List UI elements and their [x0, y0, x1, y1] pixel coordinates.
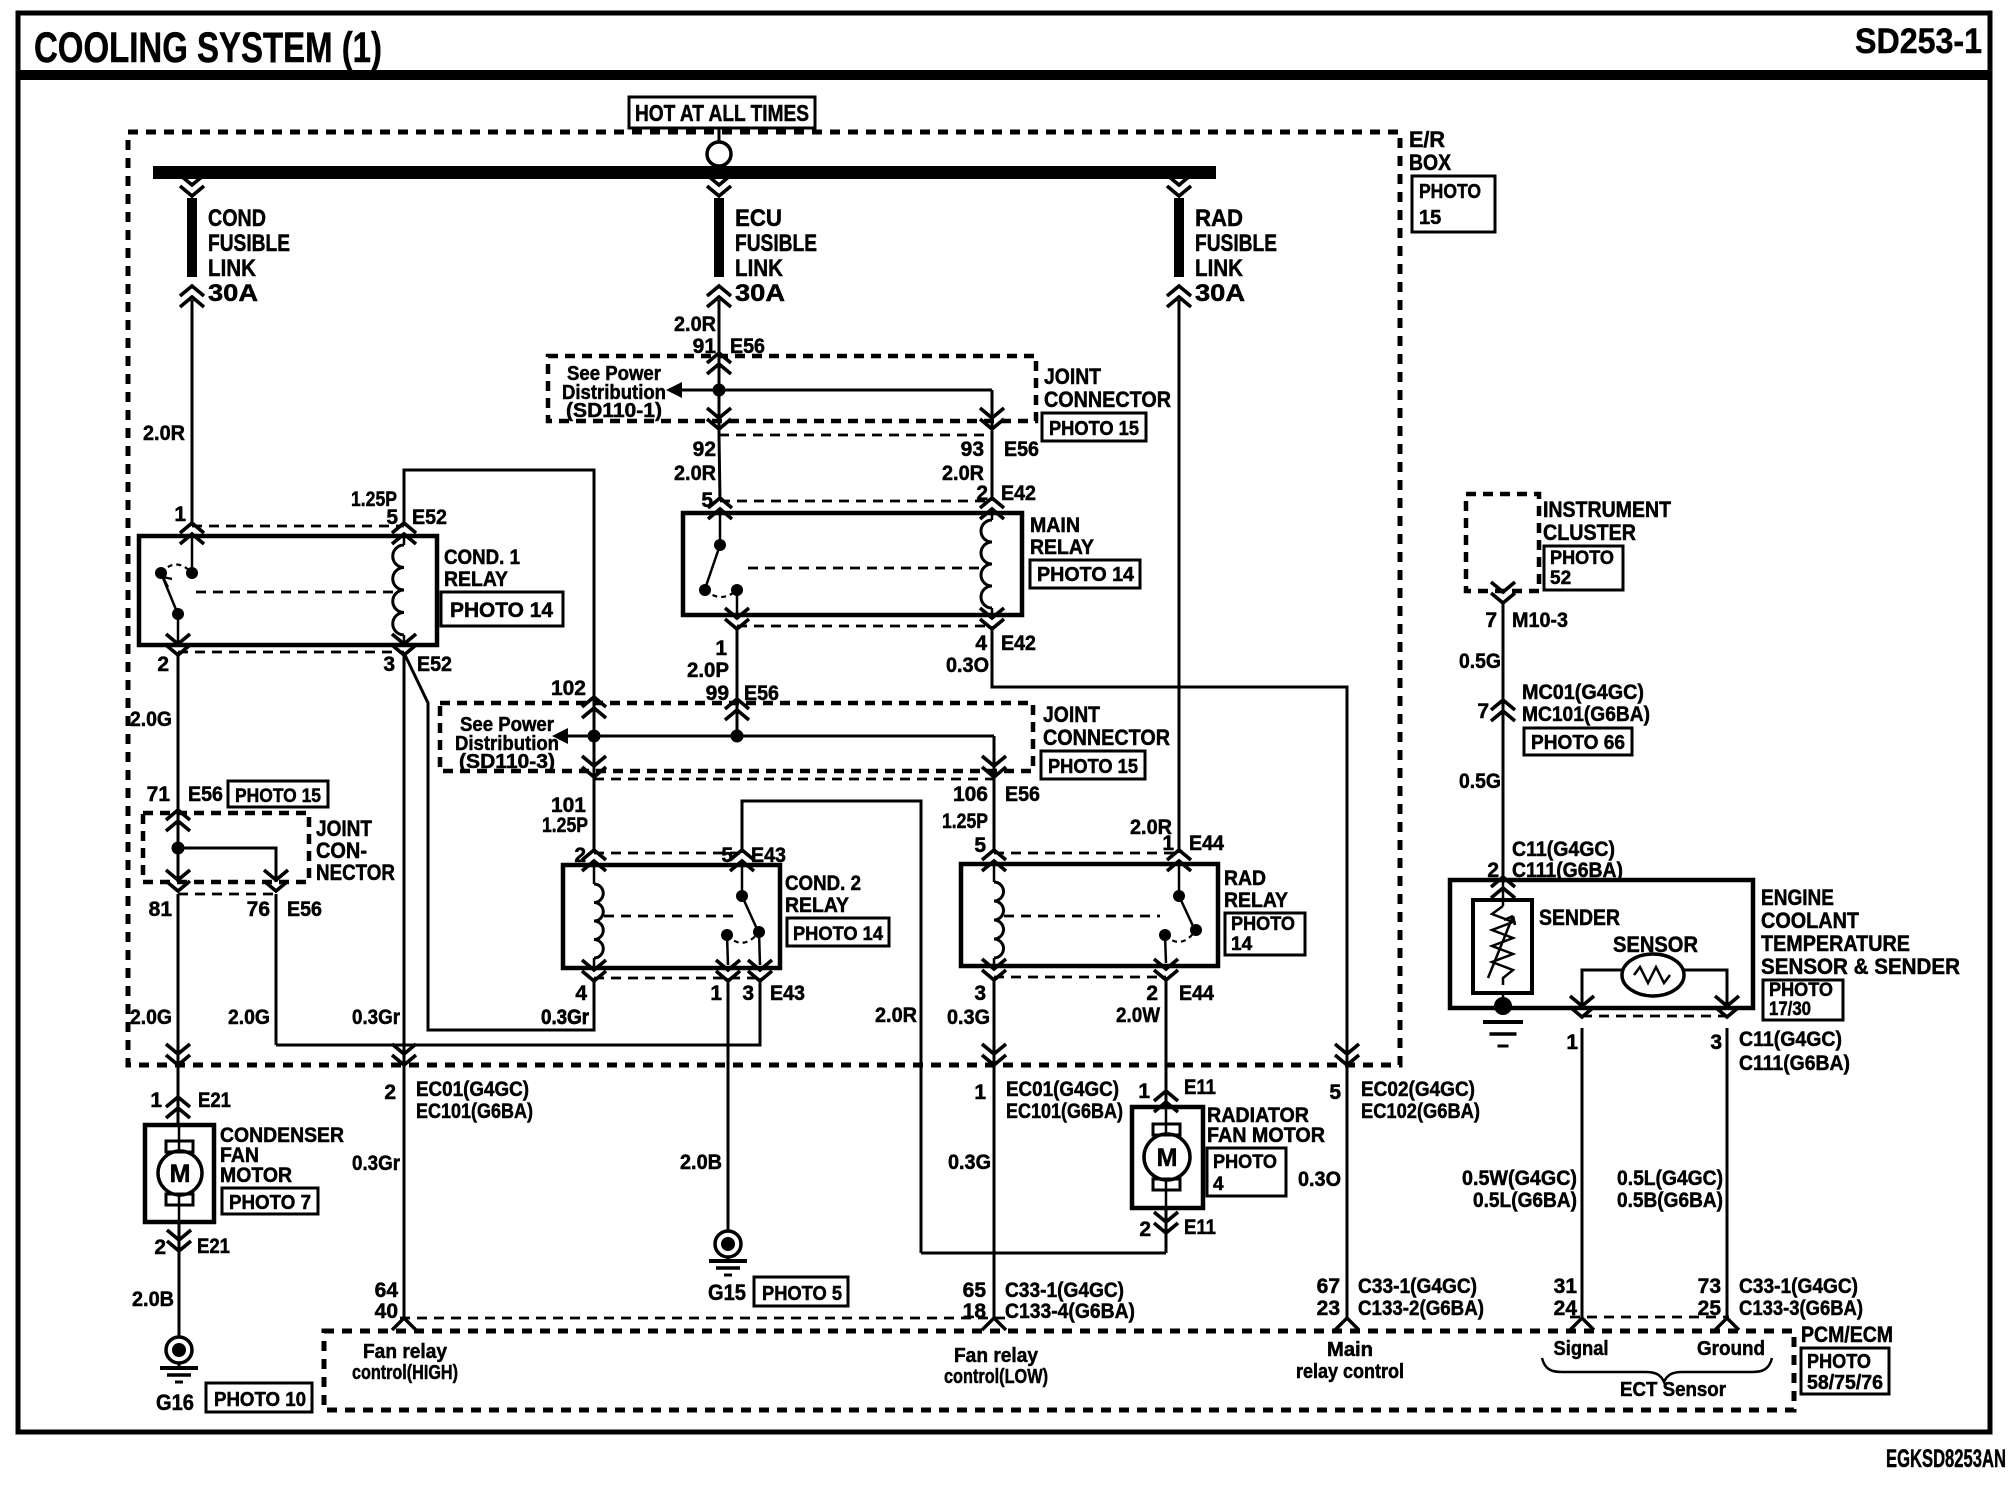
EC02 connector arrow (main relay control) [1335, 1044, 1359, 1065]
svg-text:CONNECTOR: CONNECTOR [1044, 387, 1171, 412]
MAIN relay coil [991, 513, 994, 520]
svg-text:1: 1 [1566, 1031, 1578, 1054]
svg-text:23: 23 [1317, 1297, 1340, 1320]
svg-text:0.3O: 0.3O [1298, 1168, 1341, 1191]
svg-text:2.0B: 2.0B [132, 1288, 174, 1311]
svg-text:EC101(G6BA): EC101(G6BA) [416, 1100, 533, 1123]
svg-text:2: 2 [154, 1236, 166, 1259]
svg-text:G15: G15 [708, 1280, 746, 1305]
svg-text:RELAY: RELAY [785, 894, 849, 917]
main power bus bar [153, 166, 1216, 179]
svg-text:3: 3 [742, 982, 754, 1005]
svg-text:2: 2 [1146, 982, 1158, 1005]
pin 101 arrow out of joint connector [582, 756, 606, 777]
svg-text:0.5B(G6BA): 0.5B(G6BA) [1617, 1189, 1723, 1212]
svg-text:PHOTO 14: PHOTO 14 [793, 924, 883, 945]
RAD relay mid dashed line [1004, 915, 1160, 918]
wire 0.5G instrument cluster to sender [1502, 602, 1505, 880]
svg-text:0.3G: 0.3G [948, 1151, 991, 1174]
pin 3 E43 arrow below COND.2 relay [748, 960, 772, 981]
E21 pin 1 arrow at condenser fan motor [166, 1044, 190, 1065]
svg-text:71: 71 [147, 783, 171, 806]
svg-text:MOTOR: MOTOR [220, 1164, 292, 1187]
svg-text:5: 5 [974, 834, 986, 857]
svg-text:COOLING SYSTEM (1): COOLING SYSTEM (1) [34, 24, 382, 72]
svg-text:0.3Gr: 0.3Gr [352, 1006, 400, 1029]
sender ground symbol [1483, 1020, 1523, 1024]
svg-text:FAN MOTOR: FAN MOTOR [1207, 1124, 1325, 1147]
E56 pin row 81-76 [178, 893, 276, 896]
RAD relay switch [1178, 864, 1181, 892]
PCM entry chevron fan relay control HIGH [392, 1318, 416, 1330]
svg-text:relay control: relay control [1296, 1361, 1404, 1383]
svg-text:18: 18 [963, 1300, 987, 1323]
joint connector SD110-3 dashed box [440, 703, 1033, 771]
SD110-1 internal bus wire [682, 389, 992, 392]
PCM entry chevron main relay control [1335, 1318, 1359, 1330]
svg-text:RELAY: RELAY [1030, 536, 1094, 559]
svg-text:PHOTO: PHOTO [1231, 914, 1295, 935]
svg-text:PHOTO 5: PHOTO 5 [762, 1283, 842, 1305]
svg-text:BOX: BOX [1409, 150, 1451, 175]
PCM entry chevron fan relay control LOW [982, 1318, 1006, 1330]
svg-text:2.0R: 2.0R [674, 313, 716, 336]
svg-text:0.5L(G4GC): 0.5L(G4GC) [1617, 1167, 1723, 1190]
sender variable resistor [1473, 900, 1532, 993]
svg-text:4: 4 [575, 982, 587, 1005]
pin 71 E56 arrow [166, 810, 190, 831]
svg-text:2.0R: 2.0R [143, 422, 185, 445]
svg-text:93: 93 [961, 438, 984, 461]
E11 pin 1 arrow at radiator fan motor [1154, 1091, 1178, 1112]
wire 2.0G pin 81 to condenser fan motor [177, 894, 180, 1125]
E56 connector pin row 101-106 [594, 778, 994, 781]
svg-text:17/30: 17/30 [1769, 999, 1811, 1020]
svg-text:PHOTO 7: PHOTO 7 [229, 1192, 311, 1214]
svg-text:65: 65 [963, 1279, 987, 1302]
svg-text:0.3Gr: 0.3Gr [541, 1006, 589, 1029]
pin 2 E44 arrow below RAD relay [1154, 959, 1178, 980]
svg-text:C111(G6BA): C111(G6BA) [1739, 1052, 1850, 1075]
svg-text:PHOTO 14: PHOTO 14 [450, 599, 553, 622]
svg-text:FUSIBLE: FUSIBLE [735, 230, 817, 257]
wire 2.0B COND.2 relay pin 1 to ground G15 [727, 978, 730, 1232]
svg-text:JOINT: JOINT [1044, 364, 1101, 389]
svg-text:MAIN: MAIN [1030, 514, 1080, 537]
pin 93 arrow out of joint connector [980, 408, 1004, 429]
wire 0.5L ground to PCM [1726, 1028, 1729, 1319]
E/R box dashed outline [128, 132, 1400, 1065]
pin 99 arrow into joint connector [725, 699, 749, 720]
svg-text:PHOTO: PHOTO [1550, 548, 1614, 569]
svg-text:1: 1 [1162, 832, 1174, 855]
svg-text:(SD110-3): (SD110-3) [459, 751, 555, 773]
svg-text:1: 1 [1138, 1080, 1150, 1103]
svg-text:C33-1(G4GC): C33-1(G4GC) [1005, 1279, 1124, 1302]
svg-text:2.0W: 2.0W [1116, 1004, 1160, 1027]
svg-text:5: 5 [386, 506, 398, 529]
svg-text:4: 4 [1213, 1174, 1224, 1195]
svg-text:ENGINE: ENGINE [1761, 885, 1834, 910]
svg-text:SENDER: SENDER [1539, 905, 1620, 930]
ground G15 [715, 1231, 741, 1257]
COND.1 relay mid dashed line [196, 591, 398, 594]
RAD relay coil [993, 864, 996, 882]
svg-text:COND. 1: COND. 1 [444, 546, 520, 569]
wire 0.3G RAD relay pin 3 to PCM fan relay control LOW [993, 977, 996, 1319]
svg-text:C33-1(G4GC): C33-1(G4GC) [1739, 1275, 1858, 1298]
svg-text:PHOTO: PHOTO [1769, 980, 1833, 1001]
MAIN relay pin row (bottom) E42 [737, 625, 992, 628]
MAIN relay box [683, 513, 1022, 615]
pin 106 arrow out of joint connector [982, 756, 1006, 777]
svg-text:M: M [170, 1160, 191, 1188]
svg-text:31: 31 [1554, 1275, 1578, 1298]
COND.2 relay pin row (top) E43 [594, 852, 742, 855]
svg-text:106: 106 [953, 783, 988, 806]
svg-text:E21: E21 [198, 1089, 231, 1112]
C33 connector pin row left [400, 1317, 1010, 1320]
svg-text:5: 5 [1329, 1081, 1341, 1104]
wire 0.3O MAIN relay pin 4 to PCM main relay control [992, 626, 1347, 1319]
svg-text:EC02(G4GC): EC02(G4GC) [1361, 1078, 1475, 1101]
svg-text:COOLANT: COOLANT [1761, 908, 1860, 933]
pin 5 E43 arrow at COND.2 relay [730, 850, 754, 871]
svg-text:1: 1 [710, 982, 722, 1005]
svg-text:MC01(G4GC): MC01(G4GC) [1522, 681, 1644, 704]
svg-text:control(LOW): control(LOW) [944, 1366, 1048, 1388]
PCM/ECM dashed box [324, 1331, 1794, 1410]
HOT AT ALL TIMES label box [629, 97, 815, 128]
svg-text:58/75/76: 58/75/76 [1807, 1372, 1883, 1394]
pin 7 M10-3 arrow below instrument cluster [1491, 582, 1515, 603]
svg-text:G16: G16 [156, 1390, 194, 1415]
COND fusible link 30A [180, 175, 204, 196]
junction node on SD110-3 bus [588, 730, 601, 743]
svg-text:C133-2(G6BA): C133-2(G6BA) [1358, 1297, 1484, 1320]
svg-text:2: 2 [1139, 1218, 1151, 1241]
wire 2.0G pin 76 down to COND.2 pin 3 line [275, 894, 278, 1045]
svg-text:Signal: Signal [1554, 1338, 1609, 1360]
svg-text:CLUSTER: CLUSTER [1543, 520, 1636, 545]
svg-text:PHOTO: PHOTO [1807, 1351, 1871, 1373]
svg-text:C33-1(G4GC): C33-1(G4GC) [1358, 1275, 1477, 1298]
svg-text:EC01(G4GC): EC01(G4GC) [1006, 1078, 1119, 1101]
svg-text:1.25P: 1.25P [542, 814, 588, 837]
E11 pin 2 arrow below radiator fan motor [1165, 1208, 1168, 1253]
RAD relay box [961, 864, 1218, 966]
svg-text:CONNECTOR: CONNECTOR [1043, 725, 1170, 750]
svg-text:1: 1 [150, 1089, 162, 1112]
wire 2.0R pin 93 to MAIN relay pin 2 [991, 435, 994, 501]
wire 2.0G COND.1 relay pin 2 to joint connector pin 71 [177, 652, 180, 813]
SD110-3 internal bus wire [568, 735, 994, 738]
junction dot pin 99 on SD110-3 bus [731, 730, 744, 743]
svg-text:EGKSD8253AN: EGKSD8253AN [1886, 1445, 2006, 1473]
svg-text:30A: 30A [735, 280, 785, 307]
svg-text:PHOTO 15: PHOTO 15 [1048, 756, 1138, 778]
sensor thermistor symbol [1622, 954, 1684, 996]
svg-text:67: 67 [1317, 1275, 1340, 1298]
svg-text:0.5G: 0.5G [1459, 770, 1501, 793]
svg-text:2.0B: 2.0B [680, 1151, 722, 1174]
svg-text:COND: COND [208, 205, 266, 232]
svg-text:PHOTO: PHOTO [1419, 181, 1481, 203]
svg-text:40: 40 [375, 1300, 398, 1323]
svg-text:EC101(G6BA): EC101(G6BA) [1006, 1100, 1123, 1123]
svg-text:3: 3 [383, 653, 395, 676]
svg-text:73: 73 [1698, 1275, 1721, 1298]
svg-text:SENSOR & SENDER: SENSOR & SENDER [1761, 954, 1960, 979]
svg-text:14: 14 [1231, 934, 1253, 955]
wire 1.25P from COND.1 relay pin 5 to joint connector pin 102 [404, 470, 594, 736]
svg-text:E56: E56 [1005, 783, 1040, 806]
joint connector internal wire [177, 813, 180, 882]
wire joint connector pin 101 to COND.2 relay pin 2 [593, 736, 596, 853]
svg-text:TEMPERATURE: TEMPERATURE [1761, 931, 1910, 956]
svg-text:0.5G: 0.5G [1459, 650, 1501, 673]
svg-text:E56: E56 [287, 898, 322, 921]
svg-text:76: 76 [247, 898, 270, 921]
pin 3 E44 arrow below RAD relay [982, 959, 1006, 980]
MAIN relay switch [719, 513, 722, 541]
svg-text:M: M [1157, 1144, 1178, 1172]
svg-text:E44: E44 [1179, 982, 1214, 1005]
svg-text:INSTRUMENT: INSTRUMENT [1543, 497, 1671, 522]
svg-text:SD253-1: SD253-1 [1855, 22, 1982, 61]
svg-text:C133-3(G6BA): C133-3(G6BA) [1739, 1297, 1863, 1320]
PCM entry chevron Signal [1570, 1318, 1594, 1330]
EC01 connector arrow (0.3G) [982, 1044, 1006, 1065]
svg-text:0.3G: 0.3G [947, 1006, 990, 1029]
svg-text:FUSIBLE: FUSIBLE [1195, 230, 1277, 257]
svg-text:E11: E11 [1184, 1076, 1216, 1099]
see power distribution arrow (SD110-3) [552, 728, 568, 744]
svg-text:1: 1 [974, 1081, 986, 1104]
wire 2.0R pin 92 to MAIN relay pin 5 [719, 435, 720, 501]
svg-text:FUSIBLE: FUSIBLE [208, 230, 290, 257]
radiator fan motor M symbol [1153, 1124, 1180, 1135]
svg-text:ECU: ECU [735, 205, 782, 232]
svg-text:E/R: E/R [1409, 127, 1445, 152]
COND.1 relay switch [191, 536, 194, 569]
COND.2 relay mid dashed line [604, 915, 734, 918]
pin 81 arrow [166, 870, 190, 891]
svg-text:24: 24 [1554, 1297, 1578, 1320]
svg-text:0.5L(G6BA): 0.5L(G6BA) [1473, 1189, 1577, 1212]
COND.2 relay switch [741, 865, 744, 892]
svg-text:E56: E56 [188, 783, 223, 806]
pin 3 E52 arrow [392, 634, 416, 655]
radiator fan return wire to PCM fan relay control LOW branch [921, 1252, 1166, 1255]
svg-text:RELAY: RELAY [1224, 889, 1288, 912]
wire 2.0R from RAD fusible link to RAD relay pin 1 [1178, 300, 1181, 853]
svg-text:Ground: Ground [1697, 1338, 1765, 1360]
engine coolant temp sensor and sender box [1450, 880, 1753, 1008]
svg-text:2.0G: 2.0G [228, 1006, 270, 1029]
RAD fusible link 30A [1167, 175, 1191, 196]
svg-text:30A: 30A [1195, 280, 1245, 307]
svg-text:E56: E56 [1004, 438, 1039, 461]
svg-text:2: 2 [384, 1081, 396, 1104]
COND.1 relay pin row (top) E52 [192, 525, 404, 528]
RAD relay pin row (bottom) E44 [994, 976, 1166, 979]
power node circle [707, 142, 731, 166]
svg-text:NECTOR: NECTOR [316, 860, 395, 885]
svg-text:3: 3 [1710, 1031, 1722, 1054]
svg-text:PHOTO 66: PHOTO 66 [1531, 732, 1625, 754]
pin 1 E43 arrow below COND.2 relay [716, 960, 740, 981]
svg-text:ECT Sensor: ECT Sensor [1620, 1379, 1726, 1401]
wire from SD110-3 bus down to pin 106 / RAD relay pin 5 [993, 736, 996, 853]
COND.2 relay coil [593, 865, 596, 884]
svg-text:PHOTO 15: PHOTO 15 [235, 786, 321, 807]
wire 0.3Gr COND.1 relay pin 3 down to PCM fan relay control HIGH [403, 652, 406, 1319]
svg-text:C133-4(G6BA): C133-4(G6BA) [1005, 1300, 1135, 1323]
svg-text:M10-3: M10-3 [1512, 609, 1568, 632]
svg-text:0.3Gr: 0.3Gr [352, 1152, 400, 1175]
svg-text:E11: E11 [1184, 1216, 1216, 1239]
C33 connector pin row right [1570, 1316, 1729, 1319]
sender ground node [1494, 997, 1512, 1015]
ground G16 [166, 1337, 192, 1363]
svg-text:2.0G: 2.0G [130, 1006, 172, 1029]
pin 5 E52 arrow at COND.1 relay [392, 523, 416, 544]
pin 92 arrow out of joint connector [707, 408, 731, 429]
wire from bus down to pin 93 [991, 390, 994, 435]
svg-text:5: 5 [701, 489, 713, 512]
svg-text:25: 25 [1698, 1297, 1722, 1320]
ECU fusible link 30A [707, 175, 731, 196]
svg-text:1: 1 [174, 503, 186, 526]
MAIN relay pin row (top) E42 [720, 500, 992, 503]
pin 2 E52 arrow [166, 634, 190, 655]
pin 76 arrow [264, 870, 288, 891]
svg-text:E42: E42 [1001, 482, 1036, 505]
pin 1 E56 arrow below MAIN relay [725, 608, 749, 629]
PCM entry chevron Ground [1715, 1318, 1739, 1330]
C11 pin row 1-3 [1582, 1015, 1727, 1018]
svg-text:RAD: RAD [1195, 205, 1243, 232]
svg-text:52: 52 [1550, 568, 1571, 589]
RAD relay pin row (top) E44 [994, 852, 1179, 855]
svg-text:E43: E43 [770, 982, 805, 1005]
wire 2.0R from COND fusible link to COND.1 relay pin 1 [191, 300, 194, 526]
svg-text:JOINT: JOINT [1043, 702, 1100, 727]
svg-text:EC102(G6BA): EC102(G6BA) [1361, 1100, 1480, 1123]
junction dot pin 91 wire on bus [713, 384, 726, 397]
svg-text:2: 2 [157, 653, 169, 676]
svg-text:2.0R: 2.0R [674, 462, 716, 485]
instrument cluster dashed box [1466, 494, 1539, 591]
wire from bus to pin 92 [718, 390, 721, 435]
svg-text:C11(G4GC): C11(G4GC) [1512, 838, 1615, 861]
svg-text:RELAY: RELAY [444, 568, 508, 591]
svg-text:(SD110-1): (SD110-1) [566, 400, 662, 422]
svg-text:Fan relay: Fan relay [363, 1341, 448, 1363]
condenser fan motor box [145, 1125, 214, 1222]
radiator fan motor box [1132, 1107, 1203, 1208]
wire 2.0W RAD relay pin 2 to radiator fan motor [1165, 977, 1168, 1107]
pin 5 E44 arrow at RAD relay [982, 850, 1006, 871]
joint connector SD110-1 dashed box [548, 356, 1036, 421]
COND.2 relay pin row (bottom) E43 [594, 977, 760, 980]
pin 4 E42 arrow below MAIN relay [980, 608, 1004, 629]
svg-text:COND. 2: COND. 2 [785, 872, 861, 895]
COND.2 relay box [563, 865, 780, 968]
see power distribution arrow [666, 382, 682, 398]
svg-text:PHOTO 15: PHOTO 15 [1049, 418, 1139, 440]
svg-text:PCM/ECM: PCM/ECM [1801, 1322, 1893, 1347]
wire 2.0R from ECU fusible link to pin 91 E56 [718, 300, 721, 356]
svg-text:C11(G4GC): C11(G4GC) [1739, 1028, 1842, 1051]
svg-text:102: 102 [551, 677, 586, 700]
left joint connector dashed box [143, 813, 309, 882]
condenser fan motor M symbol [166, 1141, 193, 1152]
svg-text:LINK: LINK [208, 255, 257, 282]
svg-text:E21: E21 [197, 1235, 230, 1258]
svg-text:30A: 30A [208, 280, 258, 307]
svg-text:EC01(G4GC): EC01(G4GC) [416, 1078, 529, 1101]
svg-text:LINK: LINK [735, 255, 784, 282]
svg-text:LINK: LINK [1195, 255, 1244, 282]
wire stub from HOT label to node [718, 128, 721, 142]
svg-text:MC101(G6BA): MC101(G6BA) [1522, 703, 1650, 726]
EC01 connector arrow (fan relay control HIGH) [392, 1044, 416, 1065]
svg-text:RAD: RAD [1224, 867, 1266, 890]
svg-text:7: 7 [1485, 609, 1497, 632]
pin 3 arrow below sensor box [1715, 996, 1739, 1017]
svg-text:E52: E52 [417, 653, 452, 676]
wire 2.0R COND.2 relay pin 5 loop down to radiator fan return [742, 801, 921, 1253]
ECT sensor brace [1542, 1358, 1772, 1382]
svg-text:Main: Main [1327, 1339, 1373, 1361]
svg-text:PHOTO 10: PHOTO 10 [214, 1389, 306, 1411]
svg-text:E44: E44 [1189, 832, 1224, 855]
pin 1 arrow below sensor box [1570, 996, 1594, 1017]
pin 4 E43 arrow below COND.2 relay [582, 960, 606, 981]
svg-text:64: 64 [375, 1279, 399, 1302]
svg-text:3: 3 [974, 982, 986, 1005]
E56 connector pin row 92-93 [719, 434, 992, 437]
svg-text:E52: E52 [412, 506, 447, 529]
COND.1 relay box [139, 536, 437, 645]
wire 2.0P from MAIN relay pin 1 to joint connector pin 99 [736, 626, 739, 736]
svg-text:HOT AT ALL TIMES: HOT AT ALL TIMES [635, 100, 809, 126]
svg-text:15: 15 [1419, 207, 1441, 229]
wire COND.2 relay pin 3 to joint connector pin 76 [276, 978, 760, 1045]
pin 102 arrow into joint connector [582, 697, 606, 718]
COND.1 relay coil [403, 536, 406, 545]
svg-text:Fan relay: Fan relay [954, 1345, 1039, 1367]
svg-text:1.25P: 1.25P [942, 810, 988, 833]
wire 0.5W signal to PCM [1581, 1028, 1584, 1319]
svg-text:PHOTO: PHOTO [1213, 1152, 1277, 1173]
svg-text:1: 1 [715, 637, 727, 660]
svg-text:control(HIGH): control(HIGH) [352, 1362, 458, 1384]
svg-text:0.3O: 0.3O [946, 654, 989, 677]
title divider bar [18, 70, 1990, 80]
svg-text:E42: E42 [1001, 632, 1036, 655]
MAIN relay mid dashed line [748, 567, 984, 570]
E21 pin 2 arrow below condenser fan motor [178, 1222, 181, 1337]
svg-text:2.0R: 2.0R [875, 1004, 917, 1027]
svg-text:92: 92 [693, 438, 716, 461]
svg-text:0.5W(G4GC): 0.5W(G4GC) [1462, 1167, 1577, 1190]
MC01/MC101 connector arrows [1491, 700, 1515, 721]
COND.1 relay pin row (bottom) E52 [178, 651, 404, 654]
svg-text:4: 4 [975, 632, 987, 655]
